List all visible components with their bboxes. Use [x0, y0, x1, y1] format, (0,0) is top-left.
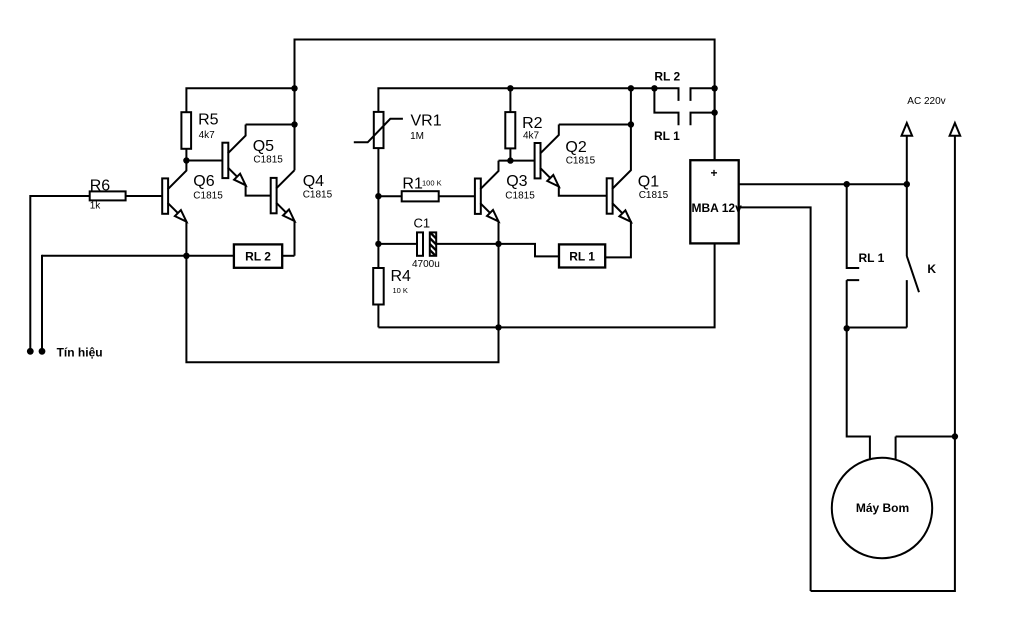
- svg-text:RL 1: RL 1: [859, 251, 885, 265]
- transistor Q1: [607, 178, 613, 213]
- node R2 bottom: [507, 157, 513, 163]
- svg-text:C1815: C1815: [303, 190, 333, 201]
- node RL1 contact bottom: [844, 325, 850, 331]
- resistor R4: [377, 244, 379, 328]
- node R5/Q6 collector/Q5 base: [183, 157, 189, 163]
- resistor R2: [509, 88, 511, 160]
- transformer MBA 12v: [690, 160, 738, 243]
- contact RL2: [654, 88, 714, 101]
- svg-text:1M: 1M: [410, 131, 424, 142]
- wire left supply vertical: [294, 39, 296, 171]
- svg-text:Q6: Q6: [193, 173, 214, 190]
- svg-text:R1: R1: [402, 175, 423, 192]
- svg-text:AC 220v: AC 220v: [907, 96, 945, 107]
- node Q1 vertical on rail y=88: [628, 85, 634, 91]
- svg-text:C1815: C1815: [505, 191, 535, 202]
- node R2 top on rail: [507, 85, 513, 91]
- wire Q5 collector rail: [246, 124, 295, 126]
- node Q5 collector / supply vertical: [291, 121, 297, 127]
- wire C1 line to RL1 coil: [499, 244, 560, 257]
- transistor Q2: [535, 143, 541, 178]
- contact RL1 right side: [847, 184, 860, 328]
- svg-text:Máy Bom: Máy Bom: [856, 501, 909, 515]
- svg-text:R6: R6: [90, 178, 111, 195]
- svg-text:Q1: Q1: [638, 173, 659, 190]
- wire RL2 to Q4 emitter: [282, 255, 294, 257]
- resistor R1: [378, 195, 475, 197]
- svg-text:VR1: VR1: [411, 112, 442, 129]
- resistor R5: [181, 112, 191, 149]
- node AC left vertical: [904, 181, 910, 187]
- svg-text:Q3: Q3: [506, 173, 527, 190]
- wire right loop: [811, 437, 955, 592]
- contact RL1: [654, 88, 714, 125]
- relay coil RL1: [559, 244, 605, 267]
- wire signal input B: [41, 255, 43, 351]
- transistor Q6: [162, 178, 168, 213]
- switch K: [847, 184, 919, 327]
- wire rail y=88 right segment: [378, 87, 654, 112]
- wire MBA output 1: [739, 183, 907, 185]
- wire R5 bottom: [185, 149, 187, 161]
- svg-text:+: +: [710, 166, 717, 180]
- svg-text:Q5: Q5: [253, 138, 274, 155]
- svg-text:RL 1: RL 1: [569, 249, 595, 263]
- svg-text:4k7: 4k7: [199, 130, 216, 141]
- node ground rail junction: [495, 324, 501, 330]
- rail y=327.5: [378, 243, 714, 328]
- wire RL2 coil left line: [42, 255, 234, 257]
- svg-text:4700u: 4700u: [412, 259, 440, 270]
- svg-text:C1815: C1815: [566, 155, 596, 166]
- svg-text:C1815: C1815: [253, 155, 283, 166]
- node Q6 emitter junction: [183, 253, 189, 259]
- motor May Bom: [832, 458, 932, 558]
- svg-text:100 K: 100 K: [422, 179, 442, 188]
- wire right supply vertical to MBA top: [714, 39, 716, 161]
- svg-text:Q4: Q4: [303, 173, 324, 190]
- wire Q2 collector: [559, 124, 631, 126]
- node right loop pump lead: [952, 433, 958, 439]
- node RL1 contact top: [844, 181, 850, 187]
- svg-text:RL 1: RL 1: [654, 129, 680, 143]
- svg-text:R2: R2: [522, 115, 543, 132]
- svg-text:10 K: 10 K: [393, 286, 408, 295]
- svg-text:K: K: [927, 262, 936, 276]
- svg-text:4k7: 4k7: [523, 131, 540, 142]
- wire rail R5 branch y=88: [186, 87, 294, 112]
- node Q3 emitter / C1 line: [495, 241, 501, 247]
- node C1 left: [375, 241, 381, 247]
- relay coil RL2: [234, 244, 282, 267]
- svg-text:MBA 12v: MBA 12v: [692, 201, 743, 215]
- svg-text:C1815: C1815: [193, 190, 223, 201]
- wire MBA output 2: [739, 207, 811, 591]
- transistor Q5: [222, 143, 228, 178]
- svg-text:Q2: Q2: [565, 139, 586, 156]
- svg-text:C1815: C1815: [639, 190, 669, 201]
- wire Q5 base line: [186, 160, 222, 162]
- rheostat VR1: [374, 112, 384, 148]
- wire VR1 to C1 line: [377, 195, 379, 244]
- transistor Q3: [475, 179, 481, 214]
- node Q2 collector / Q1 collector vertical: [628, 121, 634, 127]
- svg-text:R5: R5: [198, 111, 219, 128]
- wire pump right lead: [896, 437, 955, 461]
- wire emitter net bottom loop RL2: [186, 244, 498, 362]
- svg-text:R4: R4: [391, 268, 412, 285]
- wire pump left lead: [847, 328, 870, 460]
- node supply-R5 rail junction: [291, 85, 297, 91]
- transistor Q4: [271, 178, 277, 213]
- wire top +12V rail: [295, 39, 715, 41]
- wire contacts to MBA vertical: [714, 88, 716, 160]
- svg-text:RL 2: RL 2: [245, 249, 271, 263]
- wire VR1 bottom: [377, 148, 379, 196]
- wire Q3 collector to Q2 base: [499, 160, 535, 162]
- capacitor C1: [378, 243, 498, 245]
- wire signal input A: [29, 195, 31, 351]
- svg-text:1k: 1k: [90, 200, 102, 211]
- resistor R6: [30, 195, 162, 197]
- node VR1/R1: [375, 193, 381, 199]
- svg-text:C1: C1: [414, 215, 431, 230]
- svg-text:Tín hiệu: Tín hiệu: [57, 346, 103, 360]
- svg-text:RL 2: RL 2: [654, 70, 680, 84]
